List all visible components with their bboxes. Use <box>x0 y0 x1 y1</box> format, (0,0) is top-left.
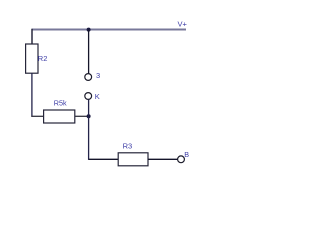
resistor R3 <box>118 153 148 166</box>
junction at R5k right <box>87 114 91 118</box>
wire R5k right <box>75 115 89 117</box>
wire R2 bottom <box>31 73 33 117</box>
svg-text:R2: R2 <box>38 54 48 63</box>
junction on V+ rail <box>87 28 91 32</box>
wire bottom to R3 <box>89 158 119 160</box>
svg-text:3: 3 <box>96 71 100 80</box>
resistor R2 <box>26 44 38 73</box>
node B terminal <box>178 156 185 163</box>
svg-text:R3: R3 <box>123 142 133 151</box>
wire R3 right <box>148 158 178 160</box>
wire node K down <box>88 99 90 159</box>
svg-text:K: K <box>95 92 100 101</box>
wire V+ rail <box>32 29 186 31</box>
resistor R5k <box>44 110 75 123</box>
svg-text:B: B <box>184 150 189 159</box>
node 3 terminal <box>85 74 92 81</box>
wire rail to node 3 <box>88 30 90 74</box>
svg-text:R5k: R5k <box>54 99 67 108</box>
node K terminal <box>85 93 92 100</box>
wire R2 top <box>31 29 33 45</box>
svg-text:V+: V+ <box>178 20 188 29</box>
wire R5k left <box>31 115 43 117</box>
